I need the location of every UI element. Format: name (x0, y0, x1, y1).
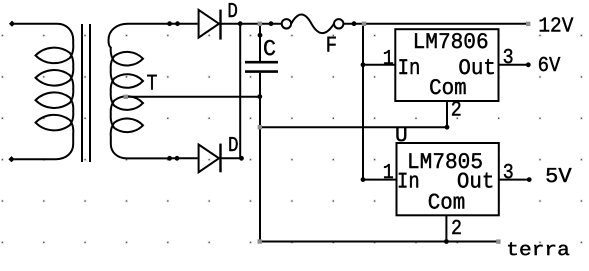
U2 LM7805 box (397, 143, 499, 215)
input rail vertical to both regulators (362, 24, 364, 180)
wire fuse to 12V rail end (343, 23, 528, 25)
junction D2 cathode / vertical wire (239, 156, 244, 161)
junction D1 cathode / 12V rail (238, 21, 243, 26)
svg-text:T: T (147, 71, 158, 97)
svg-text:6V: 6V (538, 54, 561, 78)
svg-text:LM7806: LM7806 (413, 29, 489, 55)
svg-text:2: 2 (451, 98, 462, 122)
svg-text:D: D (227, 0, 238, 24)
6V terminal dot (526, 62, 531, 67)
wire secondary bottom to diode D2 anode (170, 157, 198, 159)
transformer core line right (89, 24, 91, 162)
svg-text:C: C (263, 36, 276, 62)
svg-text:terra: terra (506, 239, 570, 261)
capacitor C top lead (259, 24, 261, 61)
node marker terra rail end (496, 239, 500, 243)
svg-text:In: In (397, 169, 420, 195)
wire top-left terminal to transformer primary (12, 23, 57, 25)
wire-end dots left of diode D1 (b) (175, 21, 180, 26)
terra rail (260, 241, 499, 243)
5V terminal dot (527, 177, 532, 182)
svg-text:12V: 12V (538, 15, 573, 39)
wire D2 cathode to junction (221, 157, 242, 159)
node marker capacitor at 12V rail (258, 22, 262, 26)
capacitor C top plate (245, 61, 278, 64)
fuse F left circle (282, 19, 291, 28)
svg-text:5V: 5V (545, 165, 572, 189)
node marker terra corner (258, 239, 262, 243)
transformer T primary winding (12, 24, 73, 160)
U2 pin 3 output wire (499, 179, 529, 181)
U1 LM7806 box (395, 29, 498, 101)
vertical wire D1 node down to D2 node (239, 24, 241, 159)
junction input rail / U2 pin1 (361, 177, 366, 182)
fuse F right circle (334, 19, 343, 28)
wire-end dots left of diode D2 (b) (175, 156, 180, 161)
grid dot background (1, 34, 583, 244)
diode D2 cathode bar (219, 144, 221, 173)
junction common wire / U1 pin2 (445, 125, 450, 130)
svg-text:Com: Com (429, 75, 467, 101)
svg-text:F: F (326, 33, 338, 59)
wire input rail to U2 pin 1 (363, 179, 397, 181)
diode D1 cathode bar (219, 10, 221, 40)
transformer T secondary winding (109, 24, 170, 159)
wire-end dots left of diode D1 (a) (167, 21, 172, 26)
wire-end dot fuse left lead (269, 21, 274, 26)
capacitor C bottom lead down to terra corner (259, 73, 261, 242)
terminal diamond bottom left (8, 156, 14, 162)
U2 pin 2 wire down to terra (445, 215, 447, 241)
node marker input rail at 12V rail (362, 22, 366, 26)
diode D1 triangle (199, 10, 219, 38)
transformer center tap wire (126, 96, 260, 98)
wire secondary top to diode D1 anode (128, 23, 198, 25)
svg-text:D: D (228, 134, 239, 158)
capacitor C bottom plate (245, 70, 278, 73)
svg-text:U: U (395, 124, 408, 148)
diode D2 triangle (199, 145, 219, 173)
U1 pin 3 output wire (499, 64, 529, 66)
svg-text:3: 3 (503, 46, 514, 70)
node marker transformer center tap (124, 95, 128, 99)
U1 pin 2 common wire down (446, 101, 448, 127)
svg-text:In: In (398, 55, 421, 81)
common wire capacitor node to U1 pin2 (260, 126, 447, 128)
svg-text:1: 1 (383, 161, 394, 185)
wire D1 cathode to fuse (221, 23, 282, 25)
junction center-tap / capacitor lead (257, 94, 262, 99)
wire-end dots left of diode D2 (a) (167, 156, 172, 161)
junction input rail / U1 pin1 (361, 62, 366, 67)
junction terra rail / U2 pin2 (444, 239, 449, 244)
fuse F squiggle (291, 15, 334, 34)
transformer core line left (81, 24, 83, 162)
terminal diamond top left (9, 21, 15, 27)
wire input rail to U1 pin 1 (363, 64, 395, 66)
node marker common wire corner (258, 125, 262, 129)
node marker 12V rail end (526, 22, 530, 26)
svg-text:1: 1 (383, 47, 394, 71)
wire-end dot capacitor top lead (258, 33, 263, 38)
svg-text:Com: Com (428, 190, 466, 216)
svg-text:2: 2 (451, 217, 462, 241)
svg-text:3: 3 (503, 161, 514, 185)
wire-end dot fuse right lead (352, 21, 357, 26)
